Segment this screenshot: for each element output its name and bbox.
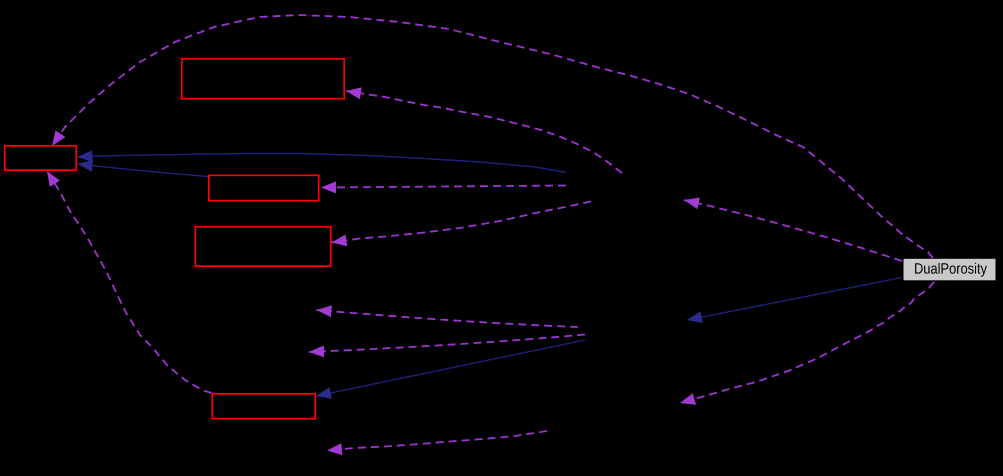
- edge B1: solid inheritance hidden node A -> left node: [78, 154, 567, 173]
- node R3: third red truncated node: [195, 227, 330, 266]
- node R4: bottom red truncated node: [212, 394, 315, 419]
- edge B4: solid inheritance hidden node B -> bottom node: [316, 340, 585, 396]
- edge P8: dashed usage bottom node -> left node: [47, 171, 212, 393]
- edge P10: dashed usage hidden node G -> hidden node H: [327, 431, 547, 451]
- node R2: middle red truncated node: [209, 175, 319, 200]
- edge P1: dashed usage arc DualPorosity -> left node: [52, 15, 933, 258]
- edge P4: dashed usage hidden node A -> middle node: [321, 186, 566, 188]
- edge P2: dashed usage DualPorosity -> hidden node A: [684, 200, 902, 261]
- edge P9: dashed usage DualPorosity -> hidden node D: [680, 282, 934, 403]
- edge B2: solid inheritance middle node -> left node: [78, 164, 209, 177]
- edge P6: dashed usage hidden node B -> hidden node E: [317, 310, 579, 327]
- node R5: left red truncated node: [5, 146, 76, 170]
- node DualPorosity (current class, grey): [904, 259, 996, 281]
- edge B3: solid inheritance DualPorosity -> hidden node B: [687, 278, 902, 321]
- edge P3: dashed usage hidden node A -> top node: [346, 91, 622, 173]
- edge P7: dashed usage hidden node B -> hidden node F: [309, 335, 585, 353]
- edge P5: dashed usage hidden node A -> third node: [332, 202, 592, 243]
- node R1: top red truncated node: [182, 59, 344, 99]
